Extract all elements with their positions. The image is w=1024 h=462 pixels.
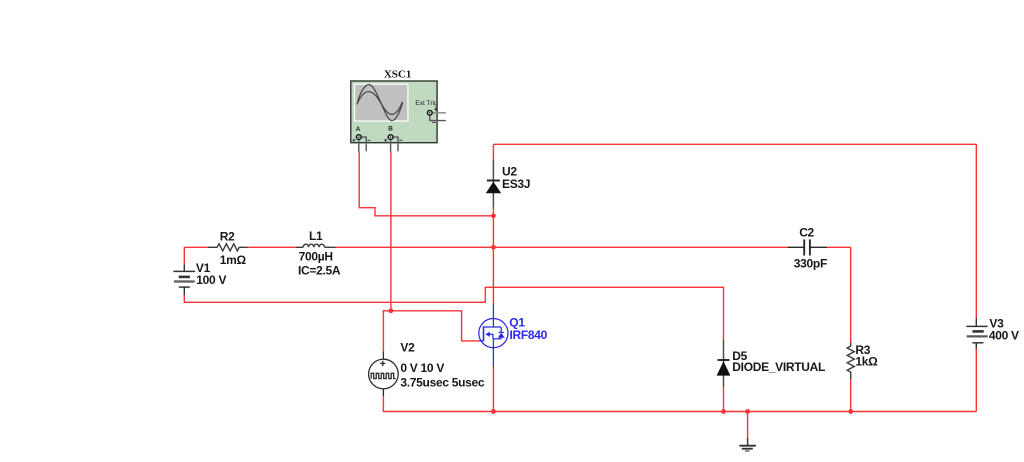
oscilloscope XSC1 channel B terminal (384, 134, 402, 152)
svg-text:B: B (388, 126, 393, 133)
oscilloscope XSC1 screen waveform A (357, 85, 403, 121)
svg-text:IRF840: IRF840 (510, 328, 548, 342)
svg-text:ES3J: ES3J (502, 177, 530, 191)
battery V1 (173, 264, 195, 295)
wire: bottom net (383, 349, 976, 438)
ground (739, 438, 756, 451)
svg-text:Ext Trig: Ext Trig (415, 100, 438, 107)
svg-text:V2: V2 (400, 340, 415, 354)
wire: top net from U2 cathode to V3 plus (493, 144, 976, 318)
svg-text:100 V: 100 V (196, 273, 226, 287)
MOSFET Q1 body diode triangle (498, 333, 505, 338)
diode U2 (486, 160, 501, 208)
svg-text:C2: C2 (799, 225, 814, 239)
node: junction Q1 source on bottom net (491, 409, 496, 414)
node: junction ground tap on bottom net (745, 409, 750, 414)
svg-text:L1: L1 (309, 229, 323, 243)
capacitor C2 (788, 239, 828, 255)
node: junction D5 cathode on bottom net (721, 409, 726, 414)
wire: V2 node to V2 plus terminal (383, 311, 391, 352)
battery V3 (966, 318, 987, 349)
wire: V1 loop bottom to D5 anode (184, 247, 723, 340)
wire: main middle row V1/R2/L1/C2/R3 (184, 247, 850, 342)
inductor L1 (296, 244, 336, 247)
svg-text:1mΩ: 1mΩ (220, 253, 247, 267)
svg-text:IC=2.5A: IC=2.5A (298, 264, 341, 278)
MOSFET Q1 arrow (485, 332, 490, 337)
svg-text:XSC1: XSC1 (384, 69, 412, 81)
svg-text:0 V 10 V: 0 V 10 V (400, 361, 444, 375)
node: junction U2 anode / channel A (491, 213, 496, 218)
oscilloscope XSC1 Ext Trig terminal (427, 108, 446, 123)
wire: scope channel B down to V2 node (390, 152, 392, 311)
svg-text:3.75usec 5usec: 3.75usec 5usec (400, 376, 484, 390)
svg-text:DIODE_VIRTUAL: DIODE_VIRTUAL (732, 360, 825, 374)
svg-text:400 V: 400 V (989, 329, 1019, 343)
MOSFET Q1 (479, 304, 508, 367)
oscilloscope XSC1 body (351, 81, 437, 143)
svg-text:700µH: 700µH (299, 250, 333, 264)
wire: U2 anode vertical down to Q1 drain (492, 208, 494, 305)
oscilloscope XSC1 screen waveform B (357, 92, 402, 115)
wire: Q1 source down to bottom net (492, 367, 494, 412)
diode D5 (717, 340, 731, 387)
wire: V2 node to Q1 gate (391, 311, 479, 341)
svg-text:A: A (356, 126, 361, 133)
wire: scope channel A to U2 anode node (359, 152, 493, 216)
node: junction U2 anode / middle row (491, 245, 496, 250)
svg-text:R2: R2 (220, 229, 235, 243)
resistor R3 (847, 342, 854, 380)
node: junction R3 bottom on bottom net (848, 409, 853, 414)
oscilloscope XSC1 channel A terminal (352, 134, 370, 152)
svg-text:330pF: 330pF (794, 256, 827, 270)
svg-text:1kΩ: 1kΩ (855, 355, 878, 369)
node: junction V2 plus / gate / channel B (389, 308, 394, 313)
pulse source V2 (369, 351, 399, 396)
resistor R2 (208, 244, 248, 251)
